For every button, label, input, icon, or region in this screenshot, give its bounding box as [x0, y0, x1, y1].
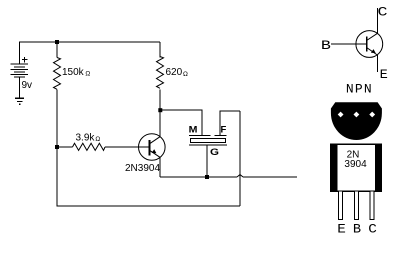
crystal body [190, 138, 226, 143]
transistor Q1 base bar [149, 140, 151, 156]
crystal top plate left (M) [189, 135, 211, 137]
node junction top of R 150k [55, 40, 59, 44]
transistor detail emitter stroke with arrow [367, 48, 378, 56]
package front body outline [331, 144, 382, 191]
crystal top plate right (F) [215, 135, 227, 137]
svg-text:Ω: Ω [95, 136, 100, 143]
transistor Q1 emitter stroke with arrow [150, 150, 161, 157]
package leg B [355, 191, 359, 219]
wire G lead down [206, 145, 208, 177]
svg-text:C: C [368, 222, 377, 236]
resistor 150k zigzag [54, 58, 61, 90]
transistor detail collector stroke [367, 33, 378, 40]
wire emitter row with hop [160, 176, 237, 178]
wire top rail right drop [159, 42, 161, 58]
wire emitter down [159, 157, 161, 177]
svg-text:620: 620 [166, 67, 183, 78]
package leg E [338, 191, 342, 219]
node junction G on emitter row [205, 175, 209, 179]
transistor detail collector wire [376, 8, 378, 33]
svg-text:E: E [380, 67, 388, 82]
wire left vertical (R1 top lead) [56, 42, 58, 58]
transistor Q1 circle [139, 134, 166, 161]
node junction base row [55, 145, 59, 149]
transistor detail base bar [366, 37, 368, 52]
battery B1 plates [11, 64, 28, 77]
svg-text:Ω: Ω [183, 71, 188, 78]
wire R1 bottom lead [56, 89, 58, 147]
svg-text:NPN: NPN [346, 82, 373, 97]
transistor symbol detail: circle [356, 31, 383, 58]
wire F loop [220, 111, 240, 136]
ground [15, 98, 24, 104]
TO-92 pin dot B [354, 112, 360, 118]
transistor detail base wire [331, 43, 366, 45]
svg-text:B: B [321, 38, 331, 53]
wire battery bottom lead [19, 77, 21, 98]
resistor 3.9k zigzag [73, 143, 106, 150]
wire base row left [57, 146, 73, 148]
svg-text:Ω: Ω [85, 70, 90, 77]
package leg C [370, 191, 374, 219]
svg-text:C: C [378, 5, 388, 20]
wire base row right [105, 146, 150, 148]
wire battery top lead [19, 42, 21, 64]
svg-text:3904: 3904 [344, 159, 367, 170]
resistor 620 zigzag [157, 57, 164, 89]
node junction collector [158, 108, 162, 112]
battery B1 plus sign [22, 57, 28, 63]
svg-text:G: G [210, 147, 219, 158]
transistor Q1 collector stroke [150, 137, 161, 144]
transistor detail emitter wire [376, 55, 378, 72]
svg-text:9v: 9v [22, 80, 33, 91]
wire top rail [19, 41, 160, 43]
svg-text:B: B [353, 222, 362, 236]
TO-92 package top view body [331, 102, 382, 140]
TO-92 pin dot E [338, 112, 344, 118]
svg-text:E: E [337, 222, 346, 236]
svg-text:150k: 150k [62, 67, 85, 78]
wire 620 bottom to collector [159, 89, 161, 136]
TO-92 pin dot C [369, 112, 375, 118]
svg-text:M: M [189, 125, 198, 135]
svg-text:3.9k: 3.9k [76, 133, 96, 144]
crystal bottom plate [189, 144, 227, 146]
wire bottom return [57, 147, 240, 206]
wire right vertical drop [239, 111, 241, 206]
wire collector node to crystal M [160, 110, 202, 136]
svg-text:F: F [221, 125, 227, 135]
svg-text:2N3904: 2N3904 [125, 163, 160, 174]
